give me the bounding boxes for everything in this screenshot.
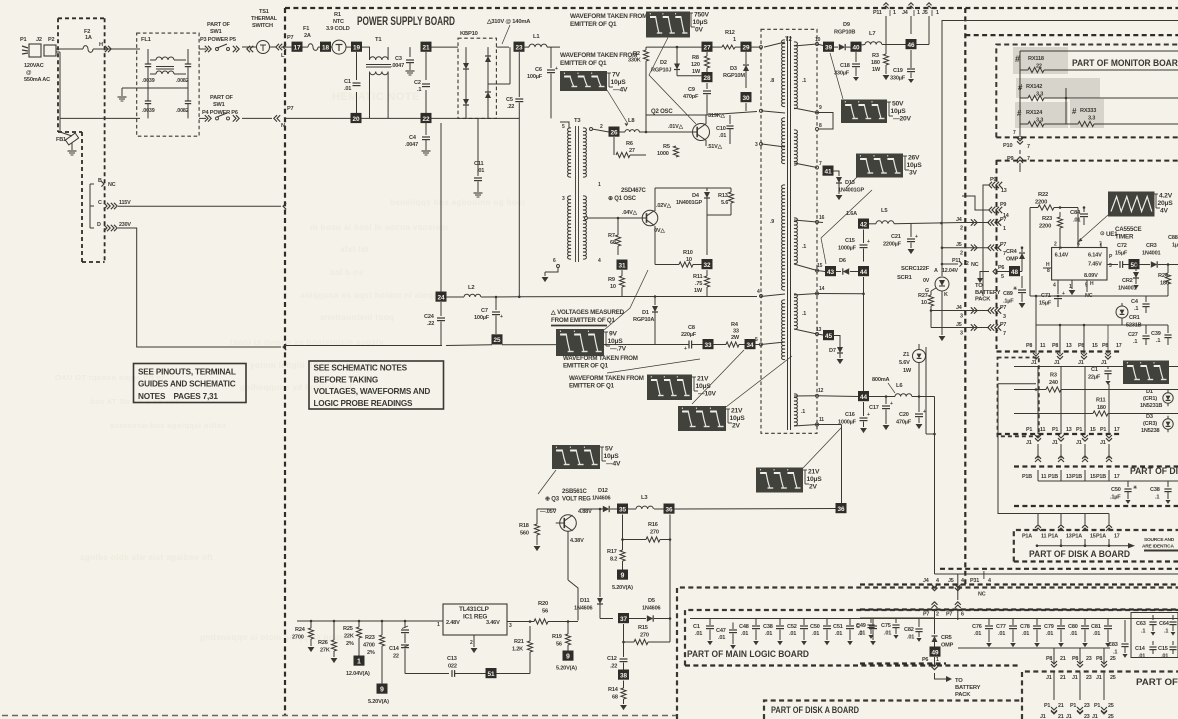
svg-text:+: + (500, 314, 503, 320)
op-amp IC1 regulator box (443, 604, 507, 635)
svg-text:2: 2 (960, 226, 963, 232)
diode D2 (651, 46, 702, 76)
svg-text:12.04V: 12.04V (942, 268, 958, 274)
svg-text:D12: D12 (598, 488, 608, 494)
wire bottom feed row (958, 620, 1110, 648)
test point 27 (702, 42, 713, 52)
svg-text:R14: R14 (608, 687, 619, 693)
timer internals (1046, 242, 1113, 291)
svg-text:4: 4 (936, 578, 939, 584)
svg-text:29: 29 (742, 45, 750, 52)
capacitor C48 (739, 619, 760, 646)
svg-text:anoitounteni tnoq: anoitounteni tnoq (320, 313, 394, 322)
capacitor C72 (1115, 243, 1129, 268)
svg-text:21: 21 (1060, 656, 1066, 662)
svg-text:C1: C1 (1091, 367, 1098, 373)
diode CR3 (1139, 243, 1178, 268)
svg-text:C4: C4 (1131, 299, 1139, 305)
svg-text:C: C (98, 200, 102, 206)
svg-text:L7: L7 (869, 31, 875, 37)
svg-text:17: 17 (1114, 474, 1120, 480)
svg-text:7: 7 (1027, 144, 1030, 150)
svg-text:6: 6 (961, 612, 964, 618)
inductor FL1 choke (150, 57, 186, 74)
svg-text:2: 2 (960, 251, 963, 257)
wire fuse to FL1 (93, 46, 140, 52)
wire C14 bottom link (405, 673, 434, 675)
test point 51 (486, 668, 497, 678)
svg-text:SOURCE AND: SOURCE AND (1144, 537, 1175, 543)
wire disk b box bottom (1014, 505, 1178, 507)
waveform sawtooth block (1108, 192, 1155, 217)
connector P7 3 row3 (988, 305, 1007, 320)
svg-text:21: 21 (1058, 714, 1064, 719)
text to battery pack (975, 283, 1001, 303)
svg-text:1N5238: 1N5238 (1141, 428, 1159, 434)
connector P1 row (1026, 427, 1120, 433)
svg-text:45: 45 (825, 333, 833, 340)
wire sq36 down to D5 (669, 538, 672, 618)
wire Z1 up (918, 344, 920, 350)
wire P2 to fuse (56, 48, 83, 50)
text P7 top left (287, 35, 294, 41)
svg-text:D: D (97, 222, 101, 228)
svg-text:Z1: Z1 (903, 352, 909, 358)
text J4 1 top (902, 3, 920, 16)
wire callout 7V to L8 (607, 90, 628, 126)
svg-text:P11: P11 (873, 10, 882, 16)
waveform sawtooth labels (1154, 193, 1173, 215)
svg-text:4.88V: 4.88V (578, 509, 592, 515)
svg-text:FL1: FL1 (141, 37, 152, 43)
capacitor C78 (1020, 619, 1041, 648)
svg-text:C77: C77 (996, 624, 1006, 630)
wire pin13 to tp45 (817, 334, 823, 335)
svg-text:NC: NC (108, 182, 116, 188)
svg-text:C24: C24 (424, 314, 435, 320)
test point 19 (351, 42, 362, 52)
svg-text:.01: .01 (1161, 654, 1168, 660)
svg-text:P9: P9 (990, 177, 996, 183)
wire callout 1.6A (821, 190, 872, 264)
capacitor C2 (414, 80, 430, 93)
wire FL1 dashed box (137, 33, 199, 136)
svg-text:0V: 0V (695, 27, 704, 34)
svg-text:△ VOLTAGES MEASURED: △ VOLTAGES MEASURED (550, 309, 625, 316)
svg-text:K: K (944, 292, 948, 298)
svg-text:3.3: 3.3 (1088, 116, 1095, 122)
svg-text:36: 36 (837, 506, 845, 513)
waveform 750V block (646, 12, 690, 38)
inductor L3 (628, 495, 664, 509)
svg-text:TL431CLP: TL431CLP (459, 606, 490, 613)
svg-text:2700: 2700 (292, 635, 304, 641)
connector P1 bottom arrows (1051, 707, 1107, 713)
waveform 7V labels (607, 72, 628, 94)
svg-text:P1A: P1A (1022, 534, 1032, 540)
svg-text:270: 270 (650, 530, 659, 536)
text NC timer (1085, 293, 1093, 299)
svg-text:550mA AC: 550mA AC (24, 77, 50, 83)
svg-text:beneilqqs bna agbodinn og boer: beneilqqs bna agbodinn og boer (390, 198, 526, 207)
inductor L5 (869, 208, 963, 224)
svg-text:17: 17 (1114, 427, 1120, 433)
text Q3 voltages (540, 509, 592, 544)
svg-text:319K△: 319K△ (708, 112, 726, 119)
svg-text:.8: .8 (770, 78, 774, 84)
svg-text:10µS: 10µS (907, 162, 923, 169)
resistor R11 (693, 270, 710, 297)
resistor R6 (614, 132, 646, 158)
svg-text:22K: 22K (344, 634, 354, 640)
svg-text:.01: .01 (812, 631, 819, 637)
text 12.04V(A) (346, 671, 370, 677)
svg-text:FB1: FB1 (56, 137, 66, 143)
svg-text:C63: C63 (1136, 621, 1146, 627)
op-amp U1 timer box (1052, 248, 1107, 281)
svg-text:13: 13 (1066, 534, 1072, 540)
connector P8 row labels (1026, 343, 1122, 349)
svg-text:10µS: 10µS (611, 79, 627, 86)
svg-text:C81: C81 (1091, 624, 1101, 630)
svg-text:SW1: SW1 (210, 29, 222, 35)
svg-text:+: + (555, 66, 558, 72)
text NC bottom (978, 592, 986, 598)
wire T2 pin3 label (755, 142, 785, 148)
svg-text:NTC: NTC (333, 19, 344, 25)
title PART OF DISK A BOARD top (1029, 549, 1130, 559)
svg-text:8: 8 (819, 123, 822, 129)
wire main AC rail on board (281, 44, 370, 50)
wire dashed connector col (996, 160, 998, 349)
svg-text:.01: .01 (858, 631, 865, 637)
wire 115V to board (118, 203, 286, 209)
transformer T2 secondary 14-13 (794, 294, 806, 329)
svg-text:P4 POWER P6: P4 POWER P6 (202, 110, 238, 116)
resistor R22 (1030, 172, 1178, 296)
svg-text:R20: R20 (538, 601, 548, 607)
wire CR1 leads (1036, 296, 1168, 326)
wire callout 21VC (803, 428, 841, 468)
resistor R3 disk (1014, 373, 1178, 393)
capacitor C13 (434, 656, 486, 677)
title PART OF DISK A BOARD bottom (771, 705, 859, 715)
wire timer output (1107, 264, 1118, 266)
resistor R3 psb (871, 16, 889, 74)
diode D13 (836, 177, 865, 194)
svg-text:19: 19 (353, 45, 361, 52)
transformer T2 secondary 16-15 (794, 218, 806, 264)
svg-text:13: 13 (1001, 188, 1007, 194)
svg-text:VOLT REG: VOLT REG (562, 497, 591, 503)
svg-text:3: 3 (960, 331, 963, 337)
diode D1 disk (1140, 389, 1173, 409)
svg-text:J1: J1 (1076, 440, 1082, 446)
svg-text:2SD467C: 2SD467C (621, 188, 646, 194)
capacitor C21 (883, 224, 918, 249)
svg-text:+: + (890, 401, 893, 407)
wire monitor inner box (996, 45, 1178, 138)
transformer T2 secondary 12-11 (794, 394, 805, 426)
transformer T2 box (761, 29, 817, 433)
note waveform label mid (563, 355, 638, 370)
resistor R24 timer (1158, 263, 1171, 296)
resistor R19 (552, 620, 571, 650)
svg-text:.01: .01 (695, 631, 702, 637)
svg-text:6.14V: 6.14V (1055, 253, 1069, 259)
svg-text:C80: C80 (1068, 624, 1078, 630)
svg-text:10µS: 10µS (693, 19, 709, 26)
wire source arrow (1036, 533, 1178, 551)
svg-text:022: 022 (448, 664, 457, 670)
test point 17 (292, 42, 303, 52)
svg-text:220µF: 220µF (681, 332, 697, 338)
svg-text:10µS: 10µS (807, 476, 823, 483)
transformer T3 (562, 118, 601, 264)
inductor L1 (524, 34, 560, 47)
svg-text:T2: T2 (785, 37, 792, 43)
svg-text:.01V△: .01V△ (668, 123, 684, 130)
svg-text:230V: 230V (119, 222, 131, 228)
svg-text:+: + (684, 346, 687, 352)
wire R16 right up (669, 515, 671, 540)
capacitor C52 (787, 619, 808, 646)
ground R26 (331, 658, 338, 663)
text to battery pack bottom (955, 678, 981, 698)
svg-text:2V: 2V (809, 484, 818, 491)
svg-text:C47: C47 (716, 628, 726, 634)
title PART OF DISK B (1130, 466, 1178, 476)
svg-text:48: 48 (1011, 269, 1019, 276)
svg-text:R15: R15 (638, 625, 648, 631)
capacitor C3 (391, 47, 414, 70)
svg-text:R3: R3 (1050, 373, 1057, 379)
svg-text:aniqquna ns aqst hoidot nl ato: aniqquna ns aqst hoidot nl atoqni (300, 291, 441, 300)
connector P11 NC (941, 258, 979, 268)
fuse F2 (83, 29, 93, 52)
svg-text:4.2V: 4.2V (1159, 193, 1173, 200)
wire Q3 emitter (556, 511, 578, 517)
ground below C4 (422, 151, 431, 155)
svg-text:13: 13 (1066, 427, 1072, 433)
text B NC (98, 178, 116, 188)
wire tp30 to pin2 wire (745, 103, 747, 111)
inductor L8 (619, 118, 639, 132)
svg-text:11: 11 (819, 417, 824, 423)
svg-text:C9: C9 (688, 87, 695, 93)
svg-text:35: 35 (619, 506, 627, 513)
wire KBP10 output (458, 47, 514, 84)
resistor R5 (657, 144, 679, 160)
svg-text:11: 11 (1041, 474, 1047, 480)
svg-text:P1B: P1B (1072, 474, 1082, 480)
transformer T2 secondary mid (794, 129, 817, 165)
waveform disk block (1123, 361, 1169, 385)
svg-text:L1: L1 (533, 34, 540, 40)
capacitor C75 (881, 618, 900, 639)
test point 21 (421, 42, 432, 52)
svg-text:.02V△: .02V△ (656, 202, 672, 209)
svg-text:2V: 2V (732, 423, 741, 430)
wire T2 pin15 (794, 263, 823, 272)
text C16 1000uF (1122, 0, 1124, 1)
wire T2 pin7 (794, 161, 822, 169)
svg-text:EMITTER OF Q1: EMITTER OF Q1 (569, 383, 615, 390)
svg-text:17: 17 (1114, 534, 1120, 540)
ground below FB1 (68, 151, 77, 155)
wire monitor col to pin7 (1013, 124, 1022, 139)
zener Z1 (899, 347, 926, 375)
svg-text:.0082: .0082 (176, 108, 189, 114)
svg-text:1: 1 (936, 657, 939, 663)
bridge diode bottom-right (485, 84, 491, 118)
wire IC1 pin2 (470, 635, 474, 647)
svg-text:C1: C1 (344, 79, 351, 85)
wire callout sawtooth (1078, 215, 1108, 242)
zener CR1 (1116, 303, 1142, 329)
text L node (281, 53, 285, 59)
svg-text:BEFORE TAKING: BEFORE TAKING (314, 375, 379, 384)
svg-text:J4: J4 (956, 217, 962, 223)
wire monitor outer dashed top (965, 34, 1178, 36)
svg-text:J1: J1 (1078, 360, 1084, 366)
ground R3 (883, 75, 890, 80)
note waveform from emitter Q1 second (560, 52, 637, 67)
capacitor C50 disk (1110, 481, 1138, 504)
svg-text:+: + (915, 234, 918, 240)
svg-text:2SB561C: 2SB561C (562, 489, 587, 495)
connector P1 bottom row (1044, 703, 1114, 709)
svg-text:LOGIC PROBE READINGS: LOGIC PROBE READINGS (314, 399, 414, 408)
capacitor C77 (996, 619, 1017, 648)
svg-text:25: 25 (493, 337, 501, 344)
svg-text:25: 25 (1110, 656, 1116, 662)
svg-text:44: 44 (860, 394, 868, 401)
svg-text:1W: 1W (903, 368, 912, 374)
capacitor C80 (1068, 619, 1089, 648)
svg-text:PART OF DISK A BOARD: PART OF DISK A BOARD (1029, 549, 1130, 559)
svg-text:.01: .01 (1073, 218, 1081, 224)
svg-text:D3: D3 (730, 66, 737, 72)
wire bottom heavy dashed row3 (860, 662, 946, 664)
text J5 1 top (922, 3, 939, 16)
svg-text:C51: C51 (833, 624, 843, 630)
wire second feed down (926, 347, 935, 434)
svg-text:180: 180 (1097, 405, 1106, 411)
switch SW1 upper section (200, 22, 253, 52)
note waveform from emitter Q1 top (570, 13, 647, 28)
test point 41 (823, 166, 834, 176)
connector P9 13 (983, 177, 1007, 296)
transformer T1 (366, 37, 391, 118)
svg-text:4V: 4V (1160, 208, 1169, 215)
svg-text:15µF: 15µF (1039, 301, 1052, 307)
diode D5 (629, 598, 670, 622)
svg-text:TS1: TS1 (259, 9, 269, 15)
ground IC1 pin2 (471, 648, 478, 653)
connector J4 2 (956, 217, 989, 232)
diode D6 (836, 258, 858, 275)
waveform 750V labels (689, 12, 710, 34)
svg-text:P1: P1 (1100, 427, 1106, 433)
svg-text:3: 3 (509, 623, 512, 629)
svg-text:.01: .01 (719, 133, 726, 139)
test point 43 (825, 266, 836, 276)
capacitor C15 disk (1158, 641, 1177, 660)
svg-text:15µF: 15µF (1115, 251, 1128, 257)
svg-text:100µF: 100µF (474, 315, 490, 321)
svg-text:PART OF MONITOR BOARD: PART OF MONITOR BOARD (1072, 58, 1178, 68)
svg-text:SEE SCHEMATIC NOTES: SEE SCHEMATIC NOTES (314, 364, 408, 373)
svg-text:.01: .01 (741, 631, 748, 637)
svg-text:C52: C52 (787, 624, 797, 630)
svg-text:P6: P6 (998, 265, 1004, 271)
svg-text:22: 22 (393, 654, 399, 660)
svg-text:34: 34 (746, 342, 754, 349)
svg-text:RGP10A: RGP10A (633, 317, 654, 323)
svg-text:100µF: 100µF (527, 74, 543, 80)
svg-text:18: 18 (322, 45, 330, 52)
diode CR4 (1006, 246, 1025, 263)
bridge diode top-left (463, 47, 469, 84)
wire bottom left bus (860, 617, 935, 619)
wire tp44 down (863, 277, 865, 391)
bridge rectifier KBP10 box (458, 31, 496, 118)
svg-text:R27: R27 (918, 293, 928, 299)
waveform 5V labels (600, 446, 621, 468)
wire col verticals disk mid (1038, 444, 1109, 458)
test point 38 (618, 670, 629, 680)
svg-text:PART OF MAIN LOGIC BOARD: PART OF MAIN LOGIC BOARD (687, 649, 809, 659)
connector P1 J2 P2 labels (20, 37, 55, 43)
svg-text:8.09V: 8.09V (1084, 273, 1098, 279)
wire selector commons (90, 184, 94, 228)
resistor RX124 shaded (1015, 98, 1068, 128)
wire disk top bus (1014, 366, 1178, 368)
svg-text:C79: C79 (1044, 624, 1054, 630)
capacitor C24 (424, 302, 445, 346)
wire 230V run (118, 228, 286, 350)
ground C17 (883, 425, 890, 430)
svg-text:10: 10 (610, 284, 616, 290)
svg-text:1: 1 (733, 37, 736, 43)
svg-text:15: 15 (1090, 534, 1096, 540)
text 120VAC rating (24, 63, 50, 83)
wire tp21 to tp22 (425, 52, 427, 113)
svg-text:P1B: P1B (1096, 474, 1106, 480)
wire timer pin1 gnd (1069, 280, 1076, 295)
svg-text:J4: J4 (902, 10, 908, 16)
connector P7 1 row1 (988, 217, 1010, 232)
svg-text:P1B: P1B (1022, 474, 1032, 480)
svg-text:P8: P8 (1052, 343, 1058, 349)
svg-text:C50: C50 (1111, 487, 1121, 493)
capacitor C19 (890, 16, 915, 83)
wire bottom heavy dashed row1 (677, 583, 1178, 585)
svg-text:C38: C38 (1150, 487, 1160, 493)
text 5.20V(A) bl (368, 699, 389, 705)
text 5.20V(A) right (556, 666, 577, 672)
svg-text:R9: R9 (608, 277, 615, 283)
test point 24 (436, 292, 447, 302)
wire FL1 center tap (122, 88, 188, 96)
svg-text:1: 1 (1003, 226, 1006, 232)
wire D4 junction to rail (706, 215, 708, 255)
wire J1 dashed box (998, 358, 1039, 437)
capacitor C83 (1108, 620, 1129, 658)
capacitor C53 (856, 619, 877, 646)
svg-text:R19: R19 (552, 634, 562, 640)
